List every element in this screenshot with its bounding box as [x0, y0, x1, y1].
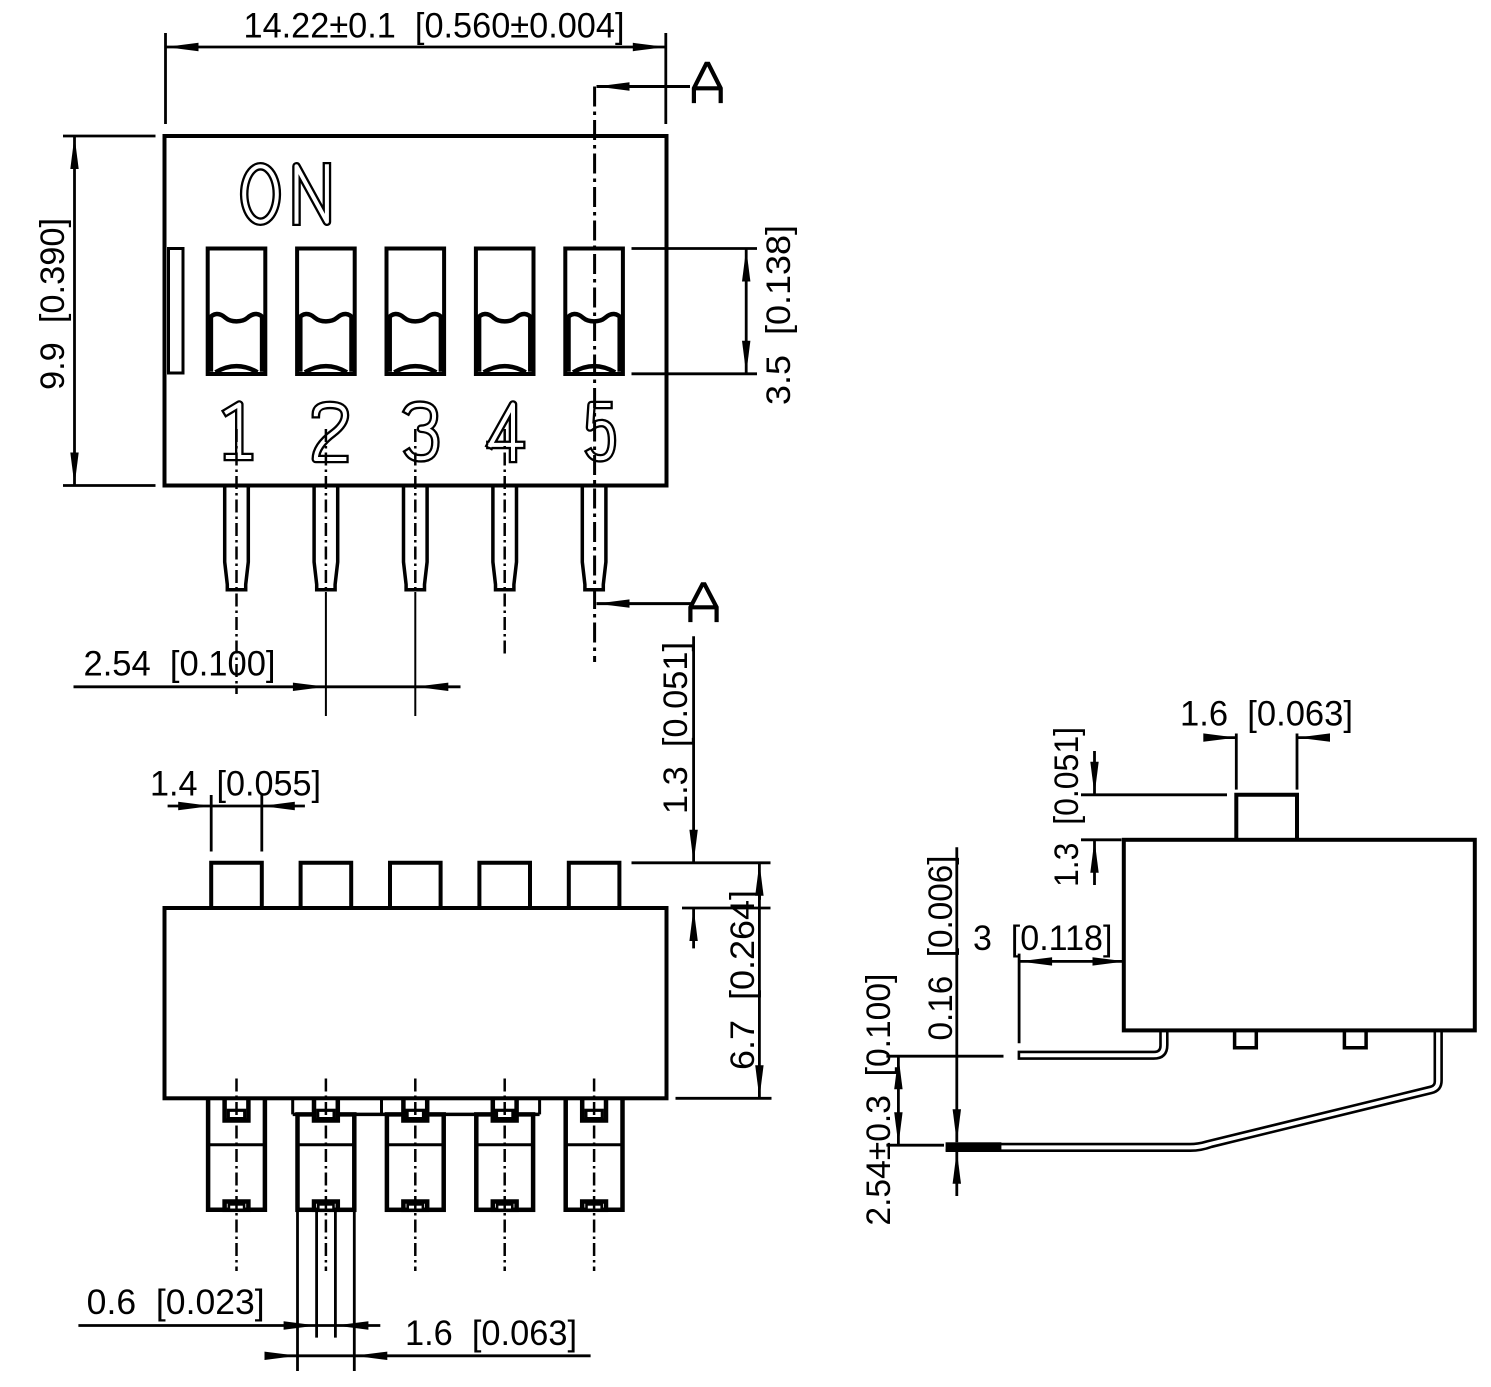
svg-text:2.54 [0.100]: 2.54 [0.100]: [84, 645, 276, 684]
svg-text:3 [0.118]: 3 [0.118]: [973, 919, 1113, 958]
svg-text:0.6 [0.023]: 0.6 [0.023]: [87, 1283, 265, 1322]
svg-text:1.3 [0.051]: 1.3 [0.051]: [657, 642, 695, 814]
svg-text:3.5 [0.138]: 3.5 [0.138]: [760, 225, 798, 405]
svg-text:1.6 [0.063]: 1.6 [0.063]: [405, 1314, 577, 1353]
svg-text:1.6 [0.063]: 1.6 [0.063]: [1180, 695, 1353, 734]
svg-text:9.9 [0.390]: 9.9 [0.390]: [34, 218, 72, 390]
svg-text:6.7 [0.264]: 6.7 [0.264]: [724, 890, 762, 1070]
svg-text:1.3 [0.051]: 1.3 [0.051]: [1048, 727, 1086, 887]
svg-text:14.22±0.1 [0.560±0.004]: 14.22±0.1 [0.560±0.004]: [244, 7, 625, 46]
svg-text:2.54±0.3 [0.100]: 2.54±0.3 [0.100]: [860, 974, 898, 1226]
svg-text:1.4 [0.055]: 1.4 [0.055]: [150, 765, 321, 804]
svg-text:0.16 [0.006]: 0.16 [0.006]: [922, 856, 960, 1041]
